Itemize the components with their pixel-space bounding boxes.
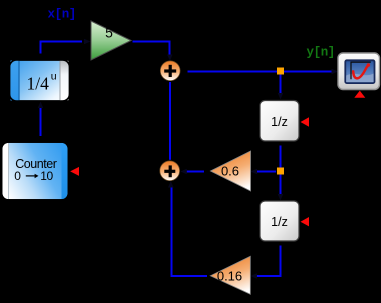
scope block U3 [338, 53, 380, 90]
arrowhead into scope [332, 69, 339, 75]
gain G3 (value 0.16) [210, 256, 250, 294]
wire from sum S1 output to scope input [188, 71, 334, 73]
event input port arrow of counter [70, 167, 79, 176]
sum S2 [160, 161, 180, 181]
svg-text:5: 5 [105, 25, 113, 41]
event input port arrow of scope [354, 91, 365, 98]
wire from counter output up to power block input [40, 107, 42, 137]
counter block U2 [2, 142, 69, 200]
svg-text:1/4: 1/4 [27, 74, 50, 94]
svg-text:0.16: 0.16 [217, 269, 242, 284]
event input port arrow of Z2 [301, 217, 310, 226]
junction J2 [277, 168, 284, 175]
event input port arrow of Z1 [301, 117, 310, 126]
svg-text:0: 0 [14, 169, 21, 183]
wire from power block top to gain G1 input [41, 42, 83, 54]
wire from junction J1 down to delay Z1 input [280, 75, 282, 94]
svg-text:y[n]: y[n] [307, 46, 335, 60]
svg-text:1/z: 1/z [271, 115, 288, 129]
wire from junction J2 left to gain G2 input [257, 171, 277, 173]
delay block Z1 (1/z) [260, 101, 299, 142]
svg-text:1/z: 1/z [271, 215, 288, 229]
wire from gain G1 output down to sum S1 top input [133, 42, 170, 56]
arrowhead into delay Z1 [278, 93, 284, 100]
svg-text:0.6: 0.6 [221, 164, 239, 179]
wire from sum S2 output up to sum S1 bottom input [169, 82, 171, 160]
gain G2 (value 0.6) [211, 151, 251, 191]
arrowhead into gain G2 base [251, 169, 258, 175]
wire from delay Z1 output down to junction J2 [280, 146, 282, 169]
wire from junction J2 down to delay Z2 input [280, 175, 282, 195]
arrowhead into gain G1 [84, 39, 91, 45]
arrowhead into sum S1 top [167, 55, 173, 62]
wire from gain G2 output to sum S2 right input [187, 171, 205, 173]
svg-text:x[n]: x[n] [48, 8, 76, 22]
delay block Z2 (1/z) [260, 201, 299, 241]
arrowhead into sum S2 bottom [168, 181, 174, 188]
svg-text:10: 10 [40, 169, 53, 183]
arrowhead into delay Z2 [278, 194, 284, 201]
arrowhead into gain G3 base [250, 273, 257, 279]
arrowhead into sum S2 [180, 169, 187, 175]
power block U1 (1/4^u) [10, 60, 70, 101]
wire from delay Z2 output to gain G3 input [256, 246, 281, 277]
arrowhead into power block bottom [38, 102, 44, 109]
junction J1 [277, 68, 284, 75]
sum S1 [160, 61, 180, 81]
svg-text:u: u [51, 72, 57, 84]
gain G1 (value 5) [91, 21, 131, 60]
wire from gain G3 output to sum S2 bottom input [172, 187, 208, 277]
